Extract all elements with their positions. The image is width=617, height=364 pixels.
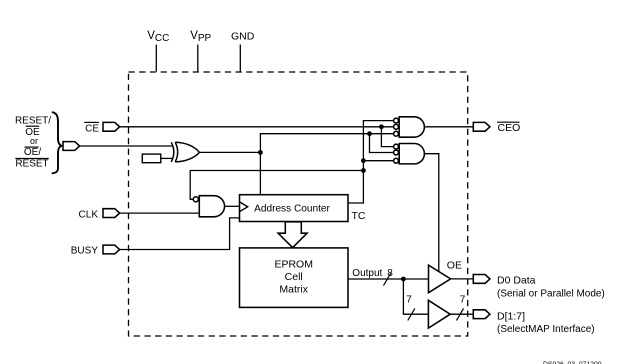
wire CLK to NAND xyxy=(120,212,200,214)
svg-text:RESET/: RESET/ xyxy=(15,116,51,127)
svg-text:Cell: Cell xyxy=(285,271,303,283)
svg-text:VCC: VCC xyxy=(147,30,169,44)
wire EPROM output bus xyxy=(348,268,429,286)
output pin D1-7 xyxy=(473,310,490,319)
label CE xyxy=(84,122,99,134)
svg-text:8: 8 xyxy=(387,268,393,279)
svg-text:Output: Output xyxy=(352,268,382,279)
address counter box xyxy=(240,195,349,222)
device boundary dashed box xyxy=(129,72,468,336)
svg-text:D[1:7]: D[1:7] xyxy=(497,311,525,323)
label D0 Data xyxy=(497,274,605,299)
svg-text:GND: GND xyxy=(231,31,255,43)
svg-text:or: or xyxy=(30,136,38,146)
input label RESET/OE or OE/RESET xyxy=(15,116,51,170)
XOR gate U1 xyxy=(171,142,199,162)
wire CEO output xyxy=(424,126,473,128)
block arrow counter to EPROM xyxy=(278,222,307,248)
svg-text:(Serial or Parallel Mode): (Serial or Parallel Mode) xyxy=(497,288,605,299)
wire OE control to buffer xyxy=(424,154,438,272)
svg-text:7: 7 xyxy=(406,294,412,305)
wire CE net xyxy=(120,124,394,146)
svg-text:CE: CE xyxy=(85,124,99,135)
output pin D0 xyxy=(473,275,490,284)
output pin CEO xyxy=(473,122,490,131)
svg-text:D0 Data: D0 Data xyxy=(497,274,536,286)
svg-text:EPROM: EPROM xyxy=(274,259,313,271)
input pin RESET/OE xyxy=(63,142,80,151)
wire branch to buffer2 xyxy=(403,279,428,320)
wire TC net xyxy=(190,121,394,203)
svg-text:VPP: VPP xyxy=(190,30,211,44)
wire buffer2 output xyxy=(450,294,473,320)
svg-text:CEO: CEO xyxy=(498,122,521,134)
svg-text:Matrix: Matrix xyxy=(279,284,308,296)
svg-text:Address Counter: Address Counter xyxy=(254,204,330,215)
svg-text:OE: OE xyxy=(447,260,462,272)
svg-text:OE/: OE/ xyxy=(24,147,41,158)
input pin BUSY xyxy=(103,245,120,254)
svg-text:RESET: RESET xyxy=(15,159,48,170)
brace xyxy=(52,112,62,173)
svg-text:(SelectMAP Interface): (SelectMAP Interface) xyxy=(497,324,595,335)
wire NAND output to counter clock xyxy=(225,205,240,207)
power pin GND xyxy=(231,31,255,72)
svg-text:CLK: CLK xyxy=(79,209,99,220)
svg-text:BUSY: BUSY xyxy=(71,246,99,257)
wire buffer1 output xyxy=(451,278,474,280)
wire BUSY to address counter xyxy=(120,218,240,250)
input pin CE xyxy=(103,122,120,131)
svg-text:7: 7 xyxy=(460,294,466,305)
svg-text:TC: TC xyxy=(352,210,366,222)
power pin VCC xyxy=(147,30,169,72)
buffer U6 D1-7 xyxy=(428,300,450,328)
option box OE polarity xyxy=(142,154,161,163)
EPROM cell matrix box xyxy=(240,248,349,308)
label CEO xyxy=(497,122,520,134)
AND gate U4 OE control xyxy=(394,144,425,164)
NAND gate U2 clock enable xyxy=(193,196,224,217)
buffer U5 D0 xyxy=(429,265,451,293)
wire RESET/OE to XOR xyxy=(80,145,173,147)
wire option box to XOR xyxy=(161,157,173,159)
label D[1:7] xyxy=(497,311,595,335)
power pin VPP xyxy=(190,30,211,72)
wire XOR output net xyxy=(199,131,393,194)
AND gate U3 CEO xyxy=(394,117,425,137)
input pin CLK xyxy=(103,209,120,218)
